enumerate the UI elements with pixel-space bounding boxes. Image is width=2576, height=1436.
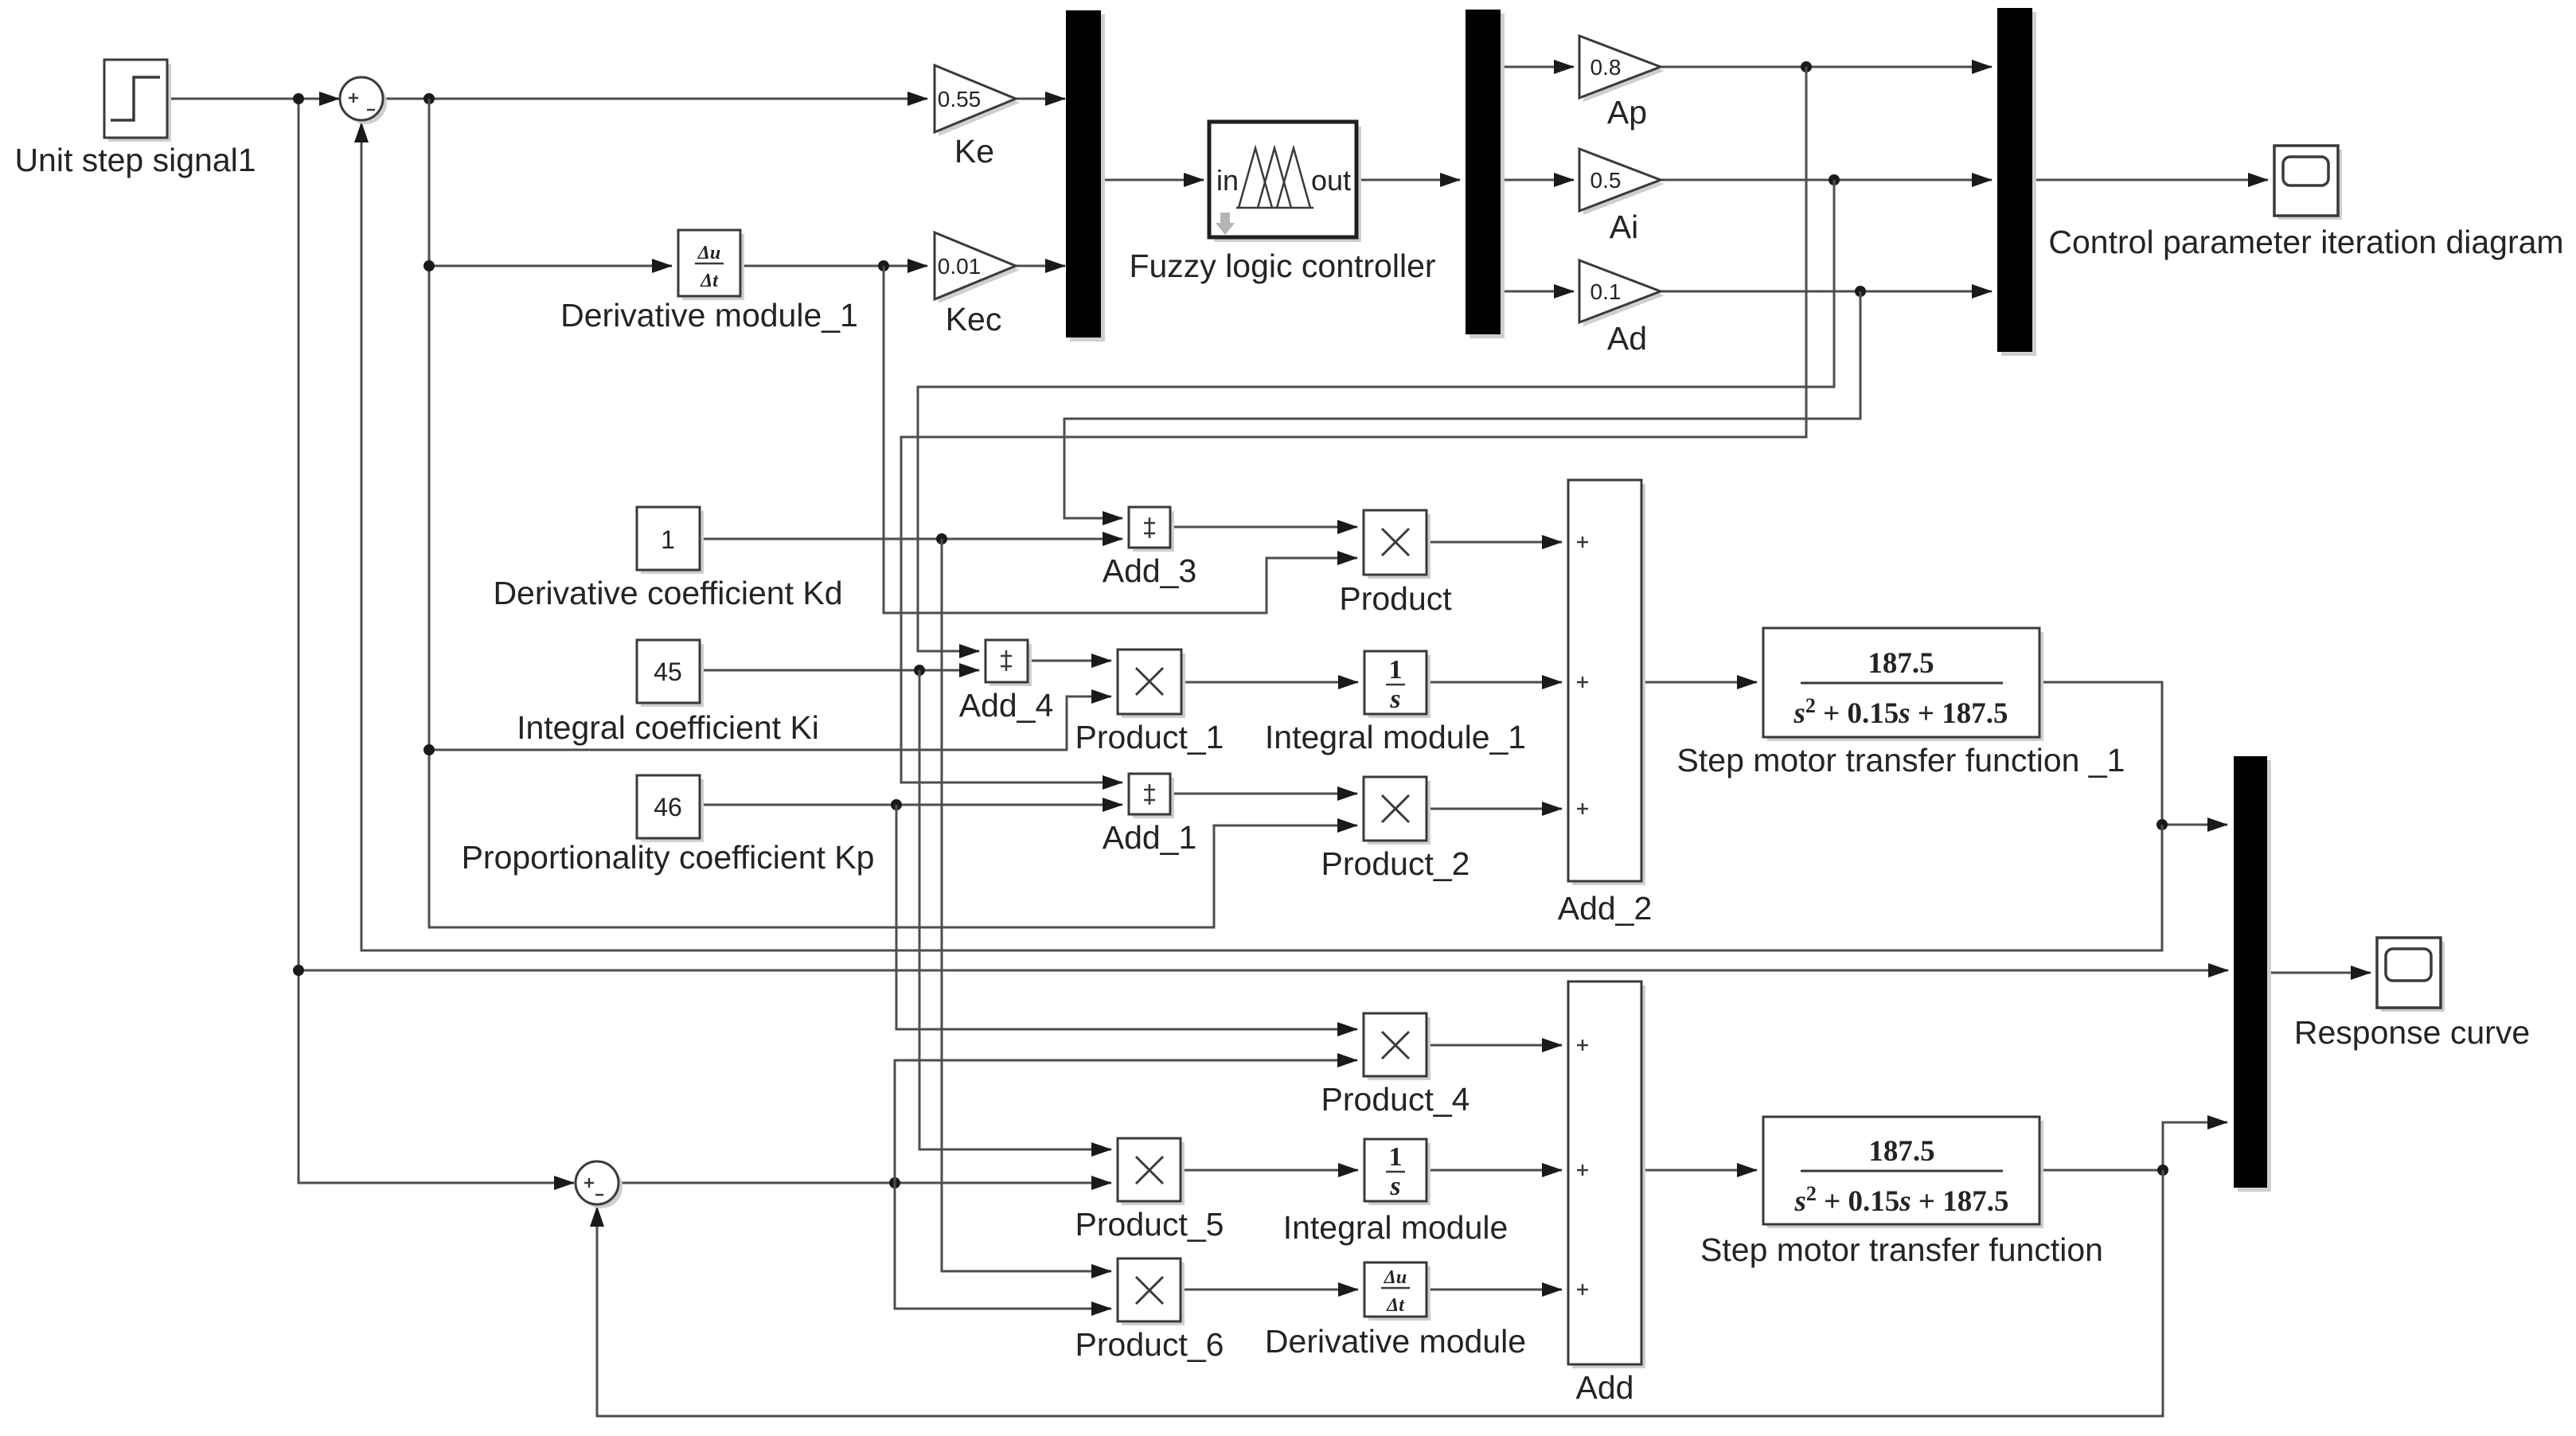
svg-text:Unit step signal1: Unit step signal1 xyxy=(14,142,256,178)
svg-text:Ad: Ad xyxy=(1607,320,1647,357)
constant Kp xyxy=(637,775,704,842)
wire error branch to Derivative module_1 xyxy=(429,265,672,267)
wire Kec to mux1 xyxy=(1016,265,1065,267)
svg-text:Proportionality coefficient Kp: Proportionality coefficient Kp xyxy=(462,839,875,876)
unit step source block xyxy=(104,60,171,142)
svg-text:Add: Add xyxy=(1576,1369,1634,1406)
sum1 xyxy=(340,77,387,124)
svg-text:0.5: 0.5 xyxy=(1590,168,1622,193)
svg-text:Ke: Ke xyxy=(954,133,994,170)
Add_4 block xyxy=(986,640,1032,686)
node junction Ap feedback xyxy=(1801,61,1812,72)
wire TF1 feedback to sum1 minus input xyxy=(361,123,2162,950)
wire TF feedback to sum2 minus input xyxy=(597,1170,2163,1416)
svg-text:Δt: Δt xyxy=(700,271,719,291)
svg-text:Control parameter iteration di: Control parameter iteration diagram xyxy=(2048,224,2563,260)
wire Ad feedback to Add_3 upper input xyxy=(1064,291,1860,518)
Add_2 block xyxy=(1568,480,1645,885)
svg-text:Δu: Δu xyxy=(1384,1267,1407,1288)
svg-text:s2 + 0.15s + 187.5: s2 + 0.15s + 187.5 xyxy=(1794,1182,2009,1218)
wire Product_1 to Integral module_1 xyxy=(1181,681,1358,684)
wire Add to transfer function xyxy=(1641,1169,1757,1172)
svg-text:in: in xyxy=(1216,164,1239,197)
wire TF output to response mux input 3 xyxy=(2039,1122,2227,1170)
wire sum1 output to Ke xyxy=(383,98,927,100)
wire Ke to mux1 xyxy=(1016,98,1065,100)
wire e2 to Product_4 lower input xyxy=(895,1060,1357,1183)
mux3 xyxy=(1997,8,2036,356)
svg-text:46: 46 xyxy=(654,793,682,821)
Integral module_1 block xyxy=(1364,651,1430,718)
svg-text:Add_4: Add_4 xyxy=(959,687,1054,724)
wire Kd down to Product_6 upper input xyxy=(942,539,1111,1271)
node junction Kd xyxy=(936,533,947,544)
wire response mux to scope2 xyxy=(2267,972,2371,974)
node junction Ad feedback xyxy=(1855,286,1866,297)
svg-text:Add_3: Add_3 xyxy=(1103,552,1197,589)
svg-text:Derivative module_1: Derivative module_1 xyxy=(560,297,858,334)
wire Derivative module_1 to Kec xyxy=(740,265,927,267)
svg-text:0.55: 0.55 xyxy=(938,87,982,111)
svg-text:out: out xyxy=(1311,164,1351,197)
wire Add_4 to Product_1 upper input xyxy=(1028,660,1111,662)
svg-text:Response curve: Response curve xyxy=(2294,1014,2530,1051)
gain Ke xyxy=(935,65,1020,136)
wire Kp down to Product_4 upper input xyxy=(896,805,1357,1029)
svg-text:Step motor transfer function _: Step motor transfer function _1 xyxy=(1677,742,2125,778)
wire Ap gain to mux3 xyxy=(1661,66,1992,68)
wire delta-e down to Product lower input xyxy=(884,266,1357,613)
mux1 xyxy=(1066,10,1105,341)
transfer function block xyxy=(1763,1117,2043,1228)
svg-text:Product: Product xyxy=(1339,580,1452,617)
wire mux3 to scope1 xyxy=(2032,179,2268,181)
constant Ki xyxy=(637,640,704,707)
Product block xyxy=(1364,510,1430,579)
svg-text:Product_4: Product_4 xyxy=(1321,1081,1470,1118)
Derivative module block xyxy=(1364,1262,1430,1321)
Product_2 block xyxy=(1364,777,1430,845)
demux xyxy=(1466,10,1505,338)
svg-text:187.5: 187.5 xyxy=(1868,1135,1934,1168)
svg-text:Integral module: Integral module xyxy=(1283,1209,1509,1246)
wire Product_6 to Derivative module xyxy=(1181,1289,1358,1291)
svg-text:Δt: Δt xyxy=(1386,1295,1405,1316)
svg-text:0.1: 0.1 xyxy=(1590,279,1622,304)
svg-text:Product_1: Product_1 xyxy=(1075,719,1224,755)
response mux xyxy=(2234,756,2271,1192)
svg-text:187.5: 187.5 xyxy=(1868,647,1934,680)
node junction delta-e xyxy=(878,260,889,271)
wire Product_2 to Add_2 input 3 xyxy=(1427,808,1562,810)
gain Ad xyxy=(1579,260,1665,326)
svg-text:Integral module_1: Integral module_1 xyxy=(1265,719,1526,755)
wire Ap feedback to Add_1 upper input xyxy=(901,67,1806,782)
svg-text:s: s xyxy=(1389,685,1400,714)
wire mux1 to fuzzy controller xyxy=(1101,179,1204,181)
node junction Kp xyxy=(891,799,902,810)
node J1 junction on step line xyxy=(293,93,304,104)
wire Product_5 to Integral module xyxy=(1181,1169,1358,1172)
node junction TF1 output xyxy=(2156,819,2168,830)
sum2 xyxy=(576,1161,623,1208)
svg-text:Derivative module: Derivative module xyxy=(1265,1323,1526,1360)
svg-text:Δu: Δu xyxy=(697,243,720,263)
svg-text:Product_6: Product_6 xyxy=(1075,1326,1224,1363)
wire Integral module_1 to Add_2 input 2 xyxy=(1427,681,1562,684)
wire fuzzy controller to demux xyxy=(1356,179,1460,181)
node junction error/deriv branch xyxy=(423,260,435,271)
Product_4 block xyxy=(1364,1013,1430,1080)
svg-text:1: 1 xyxy=(1389,1142,1403,1172)
Product_5 block xyxy=(1118,1138,1185,1205)
wire constant Ki to Add_4 lower input xyxy=(700,669,979,672)
svg-text:s: s xyxy=(1389,1172,1400,1201)
svg-text:Product_2: Product_2 xyxy=(1321,845,1470,882)
node junction TF output xyxy=(2157,1165,2168,1176)
svg-text:0.01: 0.01 xyxy=(938,254,982,279)
svg-text:Fuzzy logic controller: Fuzzy logic controller xyxy=(1129,248,1435,284)
Product_6 block xyxy=(1118,1258,1185,1325)
svg-text:1: 1 xyxy=(1389,655,1403,685)
wire demux to Ad gain xyxy=(1501,291,1574,293)
Add_1 block xyxy=(1129,774,1174,818)
Integral module block xyxy=(1364,1139,1430,1205)
gain Kec xyxy=(935,232,1020,303)
wire Ai feedback to Add_4 upper input xyxy=(918,180,1834,651)
svg-text:Add_1: Add_1 xyxy=(1103,819,1197,856)
wire Add_1 to Product_2 upper input xyxy=(1170,793,1357,795)
wire Ad gain to mux3 xyxy=(1661,291,1992,293)
wire Product_4 to Add input 1 xyxy=(1427,1044,1562,1047)
Product_1 block xyxy=(1118,650,1185,718)
wire Ai gain to mux3 xyxy=(1661,179,1992,181)
svg-text:45: 45 xyxy=(654,658,682,686)
transfer function 1 block xyxy=(1763,628,2043,741)
derivative module_1 xyxy=(678,230,744,300)
node J2 junction after sum1 xyxy=(423,93,435,104)
gain Ap xyxy=(1579,36,1665,102)
wire error branch to Product_1 lower input xyxy=(429,697,1111,750)
fuzzy logic controller block xyxy=(1209,122,1361,242)
svg-text:Ap: Ap xyxy=(1607,94,1647,131)
node junction Ai feedback xyxy=(1829,174,1840,185)
wire constant Kp to Add_1 lower input xyxy=(700,804,1122,806)
wire TF1 output to response mux input 1 xyxy=(2039,682,2227,825)
svg-text:Step motor transfer function: Step motor transfer function xyxy=(1700,1231,2103,1268)
wire Derivative module to Add input 3 xyxy=(1427,1289,1562,1291)
svg-text:Product_5: Product_5 xyxy=(1075,1206,1224,1243)
wire constant Kd to Add_3 lower input xyxy=(700,538,1122,540)
wire Add_2 to transfer function 1 xyxy=(1641,681,1757,684)
svg-text:0.8: 0.8 xyxy=(1590,55,1622,80)
wire sum2 output to Product_5 lower input xyxy=(619,1182,1111,1184)
svg-text:Kec: Kec xyxy=(946,301,1002,338)
wire demux to Ai gain xyxy=(1501,179,1574,181)
constant Kd xyxy=(637,507,704,574)
Add block xyxy=(1568,981,1645,1368)
wire error trunk down to Product_2 lower input xyxy=(429,99,1357,927)
svg-text:Derivative coefficient Kd: Derivative coefficient Kd xyxy=(493,575,842,611)
svg-text:Integral coefficient Ki: Integral coefficient Ki xyxy=(517,709,819,746)
wire unit step to sum1 xyxy=(167,98,339,100)
svg-text:1: 1 xyxy=(661,525,675,554)
gain Ai xyxy=(1579,149,1665,215)
node junction error/Product_1 branch xyxy=(423,744,435,755)
svg-text:s2 + 0.15s + 187.5: s2 + 0.15s + 187.5 xyxy=(1793,694,2008,730)
wire Product to Add_2 input 1 xyxy=(1427,541,1562,544)
scope1 control parameter iteration diagram xyxy=(2274,146,2342,220)
wire e2 to Product_6 lower input xyxy=(895,1183,1111,1309)
node junction unit step direct xyxy=(293,965,304,976)
Add_3 block xyxy=(1129,507,1174,552)
wire unit step trunk vertical to sum2 left input xyxy=(299,99,574,1183)
wire Ki down to Product_5 upper input xyxy=(919,670,1111,1149)
svg-text:Ai: Ai xyxy=(1610,209,1638,245)
node junction Ki xyxy=(914,665,925,676)
wire demux to Ap gain xyxy=(1501,66,1574,68)
wire unit step direct line to response mux xyxy=(299,970,2228,972)
wire Integral module to Add input 2 xyxy=(1427,1169,1562,1172)
svg-text:Add_2: Add_2 xyxy=(1558,890,1653,927)
node junction e2 xyxy=(889,1177,900,1188)
scope2 response curve xyxy=(2377,938,2445,1012)
wire Add_3 to Product upper input xyxy=(1170,526,1357,529)
